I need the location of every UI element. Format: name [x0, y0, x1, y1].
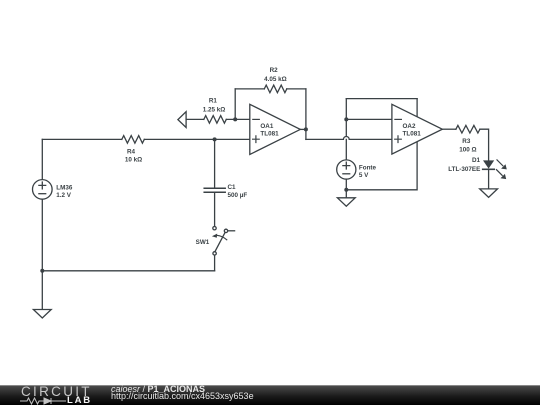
label R4 value [125, 148, 142, 163]
wire OA2 V+ and V- pins with bottom edge [346, 99, 417, 190]
wire LED to ground [488, 169, 490, 189]
wire from LM36 top to main rail [41, 139, 43, 179]
svg-text:TL081: TL081 [260, 130, 279, 137]
svg-text:C1: C1 [228, 184, 237, 191]
svg-text:Fonte: Fonte [359, 165, 377, 172]
op-amp OA1 [250, 104, 300, 154]
svg-text:R2: R2 [270, 67, 279, 74]
svg-text:5 V: 5 V [359, 172, 369, 179]
node OA1 output junction [304, 127, 308, 131]
wire OA1 output to OA2 plus with hop [306, 136, 392, 139]
svg-text:1.2 V: 1.2 V [56, 192, 72, 199]
svg-text:500 µF: 500 µF [228, 192, 248, 199]
voltage source LM36 [33, 180, 53, 200]
wire OA2 output to R3 [442, 128, 456, 130]
label Fonte value [359, 165, 377, 179]
svg-text:R4: R4 [127, 148, 136, 155]
label C1 value [228, 184, 248, 199]
wire OA1 output stub [300, 128, 306, 130]
resistor R4 [122, 136, 145, 144]
wire arrow to R1 [186, 118, 204, 120]
wire feedback top left [235, 88, 264, 90]
svg-text:D1: D1 [472, 157, 481, 164]
svg-text:10 kΩ: 10 kΩ [125, 157, 142, 164]
node OA2 minus junction [344, 117, 348, 121]
wire feedback dropper to OA1 output [305, 89, 307, 139]
label R2 value [264, 67, 287, 83]
switch SW1 [212, 227, 235, 256]
CircuitLab logo [21, 386, 92, 397]
svg-text:TL081: TL081 [403, 130, 422, 137]
wire to OA2 minus input [346, 118, 392, 120]
ground [480, 189, 498, 197]
footer bar [0, 385, 540, 405]
svg-text:LM36: LM36 [56, 184, 73, 191]
footer url text [111, 392, 254, 401]
ground [33, 310, 51, 319]
wire OA2 box left vertical to Fonte [345, 99, 347, 160]
svg-text:LTL-307EE: LTL-307EE [448, 166, 480, 173]
label SW1 [196, 239, 210, 246]
wire R4 to OA1 plus input [144, 138, 250, 140]
wire LM36 bottom to ground [41, 199, 43, 309]
svg-text:R1: R1 [209, 97, 218, 104]
wire Fonte to ground [345, 179, 347, 198]
label D1 value [448, 157, 480, 173]
svg-text:1.25 kΩ: 1.25 kΩ [203, 106, 226, 113]
label LM36 value [56, 184, 73, 199]
wire feedback top right [287, 88, 306, 90]
svg-text:OA1: OA1 [260, 123, 273, 130]
resistor R3 [456, 125, 480, 133]
svg-text:100 Ω: 100 Ω [459, 146, 476, 153]
op-amp OA2 [392, 104, 442, 154]
wire R1 to OA1 minus input [226, 118, 250, 120]
label OA2 TL081 [403, 123, 422, 137]
wire C1 top lead [214, 139, 216, 188]
resistor R1 [204, 116, 227, 124]
resistor R2 [264, 85, 287, 93]
wire bottom return [42, 270, 214, 272]
svg-text:R3: R3 [462, 138, 471, 145]
wire SW1 bottom lead [214, 255, 216, 271]
capacitor C1 [204, 188, 225, 192]
wire feedback riser [234, 89, 236, 120]
port arrow (input flag) [178, 112, 186, 128]
label R1 value [203, 97, 226, 113]
node main rail / C1 junction [213, 137, 217, 141]
node R1/R2 junction [233, 117, 237, 121]
svg-text:SW1: SW1 [196, 239, 210, 246]
footer title text [111, 385, 205, 394]
diode D1 LED [483, 160, 507, 179]
label OA1 TL081 [260, 123, 279, 137]
node Fonte bottom junction [344, 188, 348, 192]
node bottom return junction [40, 269, 44, 273]
wire main rail left segment [42, 138, 122, 140]
ground [337, 198, 355, 206]
wire R3 to LED corner [480, 129, 489, 160]
svg-text:4.05 kΩ: 4.05 kΩ [264, 76, 287, 83]
svg-text:OA2: OA2 [403, 123, 416, 130]
wire C1 to SW1 [214, 192, 216, 226]
wire OA2 supply box top edge [346, 98, 417, 100]
label R3 value [459, 138, 476, 153]
voltage source Fonte [337, 160, 356, 179]
